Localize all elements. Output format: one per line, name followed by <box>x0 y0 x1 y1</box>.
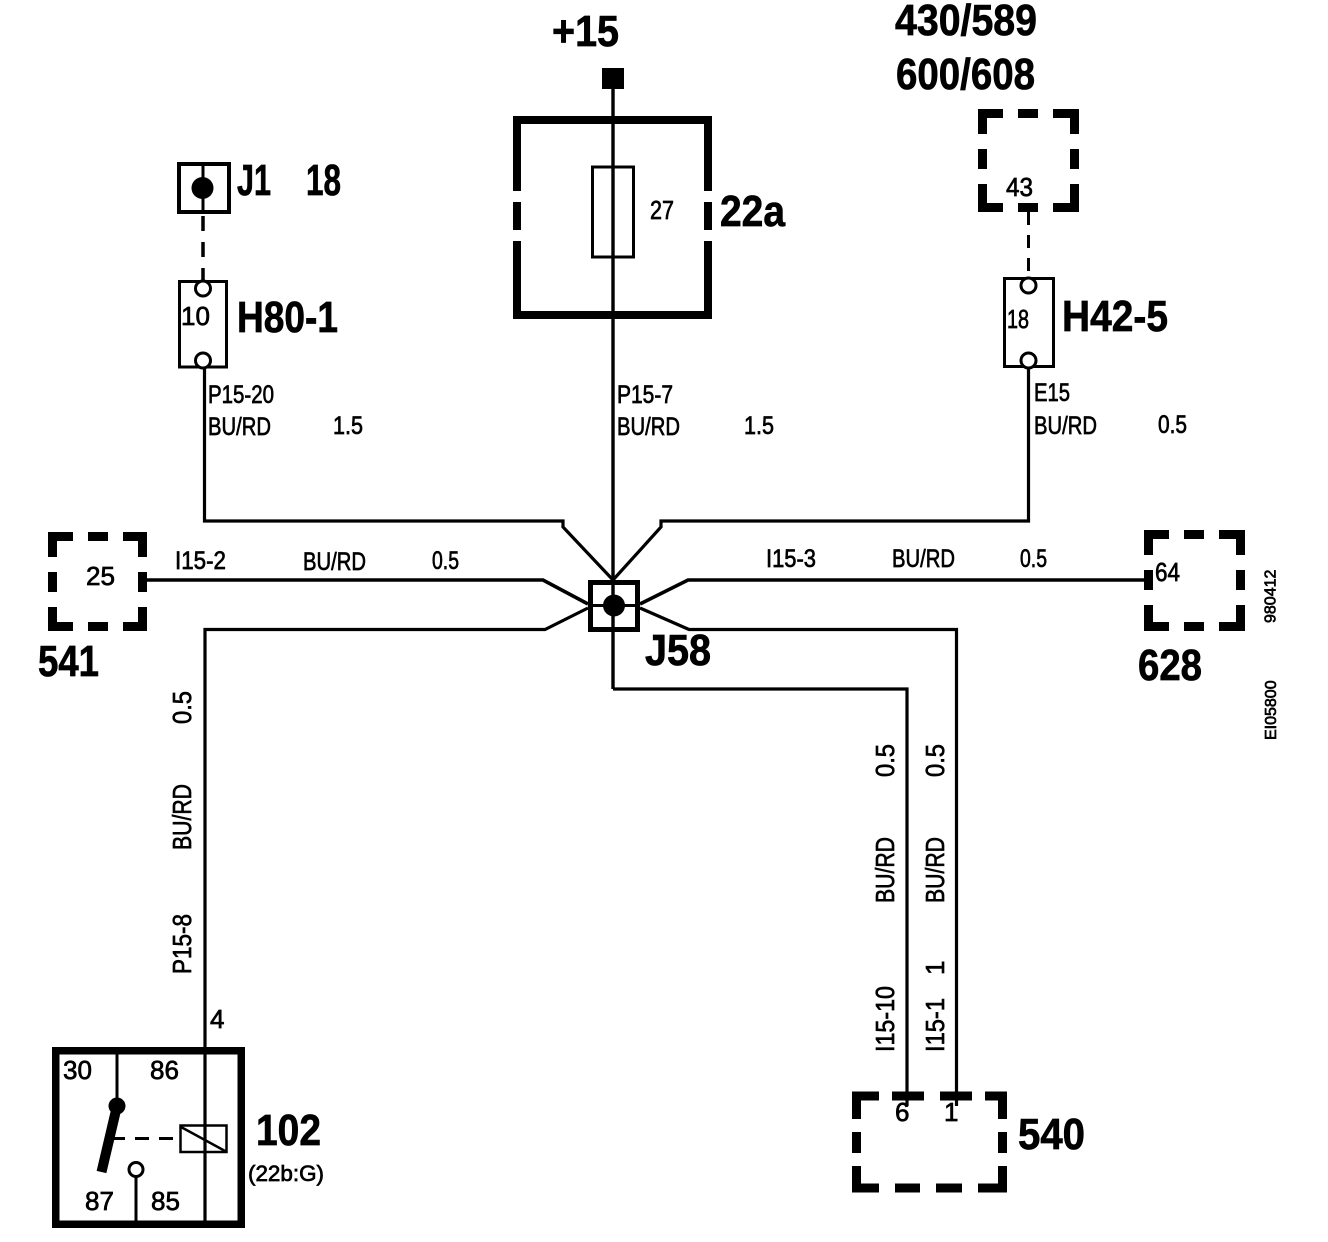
svg-text:541: 541 <box>38 637 99 686</box>
svg-text:H42-5: H42-5 <box>1062 292 1168 341</box>
svg-text:P15-8: P15-8 <box>167 914 197 974</box>
svg-text:980412: 980412 <box>1263 570 1280 623</box>
svg-text:BU/RD: BU/RD <box>870 837 900 903</box>
svg-text:0.5: 0.5 <box>920 744 950 777</box>
svg-text:0.5: 0.5 <box>1158 411 1187 439</box>
connector 25 (component 541) <box>38 530 149 686</box>
connector J1 pin 18 <box>179 156 341 214</box>
relay 102 <box>56 1051 324 1225</box>
wire I15-2 <box>147 547 588 604</box>
svg-text:BU/RD: BU/RD <box>303 548 366 576</box>
svg-text:BU/RD: BU/RD <box>617 413 680 441</box>
svg-text:540: 540 <box>1018 1110 1085 1159</box>
wire P15-8 (left branch down to relay) <box>167 608 588 1224</box>
connector H42-5 pin 18 <box>1005 278 1169 368</box>
svg-text:BU/RD: BU/RD <box>208 413 271 441</box>
relay actuation dashed link <box>111 1137 176 1140</box>
svg-text:628: 628 <box>1138 641 1202 690</box>
svg-text:EI05800: EI05800 <box>1263 680 1280 740</box>
svg-text:0.5: 0.5 <box>167 691 197 724</box>
svg-text:43: 43 <box>1006 172 1033 202</box>
svg-text:430/589: 430/589 <box>895 0 1037 45</box>
svg-text:4: 4 <box>210 1004 224 1034</box>
svg-text:85: 85 <box>151 1186 180 1216</box>
svg-text:1: 1 <box>944 1097 958 1127</box>
svg-text:J58: J58 <box>645 626 711 675</box>
svg-text:1.5: 1.5 <box>744 412 774 440</box>
fuse 27 <box>593 167 675 257</box>
relay coil <box>181 1126 227 1153</box>
svg-text:E15: E15 <box>1034 379 1070 407</box>
svg-text:10: 10 <box>181 301 210 331</box>
svg-text:+15: +15 <box>552 7 619 56</box>
wire +15 to fuse <box>611 89 614 689</box>
svg-text:P15-20: P15-20 <box>208 381 274 409</box>
svg-text:(22b:G): (22b:G) <box>248 1161 324 1186</box>
wire I15-10 (junction down, right to pin 6) <box>613 689 907 1106</box>
svg-text:BU/RD: BU/RD <box>167 784 197 850</box>
svg-text:I15-2: I15-2 <box>175 547 226 575</box>
svg-text:I15-10: I15-10 <box>870 986 900 1052</box>
svg-text:J1: J1 <box>237 156 271 205</box>
relay contact 30 feed wire <box>116 1051 119 1099</box>
svg-text:I15-3: I15-3 <box>766 545 816 573</box>
junction J58 <box>588 583 711 676</box>
svg-text:0.5: 0.5 <box>1020 545 1047 573</box>
svg-text:0.5: 0.5 <box>432 547 459 575</box>
wire E15 <box>613 368 1187 580</box>
svg-text:6: 6 <box>895 1097 909 1127</box>
svg-text:600/608: 600/608 <box>896 50 1035 99</box>
svg-text:BU/RD: BU/RD <box>892 545 955 573</box>
connector 64 (component 628) <box>1138 528 1249 690</box>
wire I15-3 <box>640 545 1144 604</box>
fusebox 22a <box>508 120 785 315</box>
svg-text:BU/RD: BU/RD <box>920 837 950 903</box>
svg-text:I15-1: I15-1 <box>920 998 950 1052</box>
wire P15-7 labels <box>617 381 774 441</box>
svg-text:0.5: 0.5 <box>870 744 900 777</box>
wire 43 to H42-5 dashed <box>1027 212 1030 278</box>
connector 43 (430/589 600/608) <box>895 0 1082 214</box>
relay pin 85 terminal <box>129 1163 143 1225</box>
svg-text:18: 18 <box>1007 304 1029 334</box>
svg-text:64: 64 <box>1155 557 1180 587</box>
relay switch arm <box>102 1098 126 1173</box>
svg-text:87: 87 <box>85 1186 114 1216</box>
connector H80-1 pin 10 <box>180 281 339 368</box>
svg-text:102: 102 <box>256 1106 321 1155</box>
node +15 <box>552 7 624 89</box>
wire J1 to H80-1 dashed <box>201 216 205 281</box>
svg-text:18: 18 <box>306 156 341 205</box>
wire I15-1 (to pin 1 of 540) <box>640 608 957 1106</box>
connector 540 <box>849 1089 1085 1196</box>
svg-text:86: 86 <box>150 1055 179 1085</box>
svg-text:22a: 22a <box>720 187 785 236</box>
svg-text:30: 30 <box>63 1055 92 1085</box>
svg-text:1.5: 1.5 <box>333 412 363 440</box>
svg-text:P15-7: P15-7 <box>617 381 673 409</box>
svg-text:1: 1 <box>920 961 950 975</box>
svg-text:25: 25 <box>86 561 115 591</box>
svg-text:BU/RD: BU/RD <box>1034 412 1097 440</box>
svg-text:H80-1: H80-1 <box>237 293 338 342</box>
svg-text:27: 27 <box>650 195 674 225</box>
wire P15-20 <box>205 369 614 581</box>
